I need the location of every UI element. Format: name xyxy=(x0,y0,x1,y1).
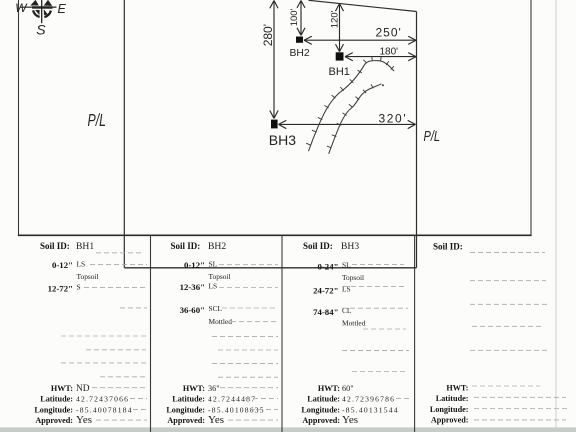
dimension line 180' (horizontal) xyxy=(345,53,416,61)
svg-text:Latitude:: Latitude: xyxy=(436,394,469,403)
svg-text:BH1: BH1 xyxy=(329,66,350,78)
stream line east (with hatch ticks) xyxy=(329,84,382,154)
stream line west ticks xyxy=(306,56,394,145)
svg-text:Soil ID:: Soil ID: xyxy=(171,241,201,251)
svg-text:SL: SL xyxy=(209,260,218,269)
svg-text:-85.40131544: -85.40131544 xyxy=(342,405,399,414)
svg-text:42.7244487: 42.7244487 xyxy=(208,394,256,403)
svg-text:42.72437066: 42.72437066 xyxy=(76,394,129,403)
svg-text:CL: CL xyxy=(342,306,352,315)
stream line east ticks xyxy=(327,84,373,148)
svg-text:BH3: BH3 xyxy=(269,132,296,148)
svg-text:Soil ID:: Soil ID: xyxy=(433,242,463,252)
svg-text:Longitude:: Longitude: xyxy=(166,405,205,414)
table top border xyxy=(18,234,532,236)
svg-text:12-36": 12-36" xyxy=(180,282,205,292)
svg-text:Topsoil: Topsoil xyxy=(209,272,231,281)
svg-text:HWT:: HWT: xyxy=(183,384,205,393)
table divider 1 xyxy=(150,235,152,432)
svg-text:Latitude:: Latitude: xyxy=(40,394,73,403)
property line west (P/L) xyxy=(123,0,125,268)
svg-text:Longitude:: Longitude: xyxy=(301,405,340,414)
property line south xyxy=(124,267,416,269)
svg-text:120': 120' xyxy=(329,10,340,28)
dimension line 320' (horizontal) xyxy=(279,120,416,128)
borehole BH3 marker xyxy=(271,120,278,129)
svg-text:280': 280' xyxy=(261,24,275,46)
svg-text:Yes: Yes xyxy=(342,414,358,426)
property line north (slanted) xyxy=(309,0,417,11)
svg-text:P/L: P/L xyxy=(88,111,106,131)
svg-text:Soil ID:: Soil ID: xyxy=(303,241,333,251)
svg-text:S: S xyxy=(77,282,81,291)
col3 dotted lines xyxy=(342,265,410,399)
col1 dotted lines xyxy=(61,253,147,420)
svg-text:320': 320' xyxy=(379,111,408,125)
dimension line 280' (vertical) xyxy=(270,1,278,119)
scanner gray band at bottom edge xyxy=(0,427,576,432)
svg-text:42.72396786: 42.72396786 xyxy=(342,394,395,403)
stream line west (with hatch ticks) xyxy=(309,61,395,152)
svg-text:Approved:: Approved: xyxy=(35,416,73,425)
svg-text:LS: LS xyxy=(342,284,351,293)
dimension line 250' (horizontal) xyxy=(304,36,416,44)
svg-text:36": 36" xyxy=(208,384,220,393)
svg-text:Longitude:: Longitude: xyxy=(430,405,469,414)
svg-text:Approved:: Approved: xyxy=(302,416,340,425)
svg-text:Topsoil: Topsoil xyxy=(77,272,99,281)
svg-text:Yes: Yes xyxy=(76,414,92,426)
svg-text:Latitude:: Latitude: xyxy=(172,394,205,403)
svg-text:SCL: SCL xyxy=(209,304,223,313)
svg-text:Approved:: Approved: xyxy=(167,416,205,425)
svg-text:HWT:: HWT: xyxy=(51,384,73,393)
svg-text:E: E xyxy=(58,2,67,16)
svg-text:180': 180' xyxy=(380,47,399,58)
property line east (P/L) xyxy=(416,12,418,268)
page right border xyxy=(530,0,532,235)
svg-text:P/L: P/L xyxy=(424,127,441,144)
dimension line 100' (vertical) xyxy=(297,1,305,36)
svg-text:24-72": 24-72" xyxy=(313,285,338,295)
svg-text:100': 100' xyxy=(289,8,300,26)
scanner artifact vertical line xyxy=(555,0,557,432)
col4 dotted lines xyxy=(470,252,568,420)
svg-text:Topsoil: Topsoil xyxy=(342,273,364,282)
svg-text:ND: ND xyxy=(76,384,90,394)
svg-text:12-72": 12-72" xyxy=(48,283,73,293)
svg-text:250': 250' xyxy=(376,26,402,40)
svg-text:S: S xyxy=(36,21,46,37)
svg-text:-85.40108635: -85.40108635 xyxy=(208,405,265,414)
svg-text:BH1: BH1 xyxy=(76,241,94,252)
svg-text:BH2: BH2 xyxy=(208,241,226,252)
svg-text:BH3: BH3 xyxy=(341,241,359,252)
svg-text:LS: LS xyxy=(209,281,218,290)
svg-text:BH2: BH2 xyxy=(290,48,310,59)
borehole BH1 marker xyxy=(336,52,344,60)
svg-text:LS: LS xyxy=(77,260,86,269)
svg-text:SL: SL xyxy=(342,261,351,270)
svg-text:-85.40078184: -85.40078184 xyxy=(76,405,133,414)
svg-text:Approved:: Approved: xyxy=(431,416,469,425)
table divider 3 xyxy=(414,235,416,432)
svg-text:Yes: Yes xyxy=(208,414,224,426)
svg-text:36-60": 36-60" xyxy=(180,305,205,315)
svg-text:0-12": 0-12" xyxy=(52,260,73,270)
compass rose xyxy=(20,0,57,23)
page left border xyxy=(18,0,20,235)
svg-text:Mottled: Mottled xyxy=(209,317,233,326)
svg-text:0-24": 0-24" xyxy=(317,262,338,272)
col2 dotted lines xyxy=(212,265,278,420)
table divider 2 xyxy=(281,235,283,432)
dot at east stream end xyxy=(382,84,384,86)
svg-text:Mottled: Mottled xyxy=(342,318,366,327)
svg-text:HWT:: HWT: xyxy=(318,384,340,393)
svg-text:Soil ID:: Soil ID: xyxy=(40,241,70,251)
svg-text:Latitude:: Latitude: xyxy=(307,394,340,403)
svg-text:74-84": 74-84" xyxy=(313,307,338,317)
svg-text:W: W xyxy=(15,1,28,15)
svg-text:0-12": 0-12" xyxy=(184,260,205,270)
svg-text:HWT:: HWT: xyxy=(446,383,468,392)
svg-text:60": 60" xyxy=(342,384,354,393)
dimension line 120' (vertical) xyxy=(336,4,344,52)
svg-text:Longitude:: Longitude: xyxy=(34,405,73,414)
borehole BH2 marker xyxy=(296,37,303,43)
